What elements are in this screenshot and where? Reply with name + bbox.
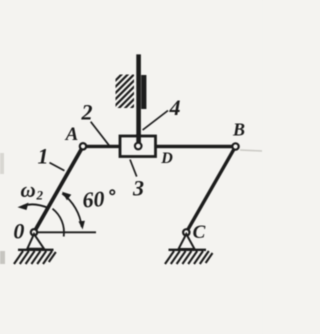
svg-text:0: 0 (13, 218, 24, 243)
svg-text:2: 2 (81, 100, 93, 125)
leader for label 2 (91, 122, 110, 146)
rod 4 stub inside block (136, 134, 141, 144)
link B-C (186, 147, 235, 233)
guide hatching (fixed wall) (106, 66, 140, 115)
support triangle at O (27, 234, 44, 249)
arrowhead of omega2 arrow (18, 203, 29, 210)
svg-text:ω: ω (21, 178, 36, 202)
svg-text:3: 3 (132, 176, 144, 201)
crank 1: O-A (34, 146, 83, 232)
guide bar (right wall of prismatic guide) (141, 75, 146, 109)
arrowhead bottom of 60-degree arc (79, 221, 85, 230)
svg-text:D: D (160, 150, 173, 167)
leader for label 3 (130, 160, 137, 177)
pin D inside block (135, 143, 142, 150)
svg-text:A: A (65, 124, 79, 145)
small angle arc at O (53, 209, 64, 237)
svg-text:4: 4 (169, 95, 181, 120)
ground hatching at O (14, 251, 56, 264)
wire: faint line right of B (240, 150, 262, 151)
degree ring of 60 label (110, 190, 114, 194)
ground hatching at C (165, 251, 213, 264)
support triangle at C (179, 234, 195, 249)
slider rod 4 (vertical bar) (136, 54, 141, 145)
pivot circle C (183, 229, 189, 235)
ground line at O (18, 249, 54, 251)
pivot circle A (80, 143, 86, 149)
ground line at C (169, 249, 207, 251)
arrowhead top of 60-degree arc (62, 192, 71, 201)
svg-text:C: C (193, 222, 206, 243)
link 2: horizontal coupler A-D-B (83, 145, 236, 149)
svg-text:1: 1 (38, 144, 49, 169)
pivot circle O (31, 229, 37, 235)
omega2 curved arrow (24, 204, 49, 208)
svg-text:2: 2 (36, 188, 44, 203)
slider block 3 (120, 136, 156, 157)
scan smudges (0, 251, 5, 264)
svg-text:60: 60 (82, 186, 106, 212)
horizontal reference line at O (34, 231, 96, 233)
leader for label 4 (143, 111, 168, 131)
svg-text:B: B (232, 120, 245, 140)
large 60-degree dimension arc with arrowheads (62, 194, 81, 227)
leader for label 1 (50, 163, 65, 171)
pivot circle B (232, 143, 238, 149)
